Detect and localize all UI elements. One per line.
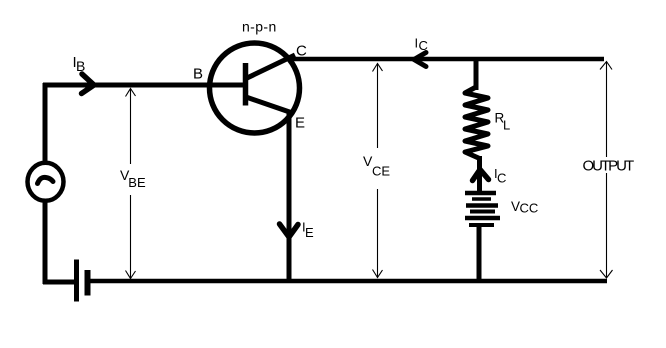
svg-text:C: C — [497, 171, 506, 186]
svg-text:n-p-n: n-p-n — [242, 19, 277, 35]
wire: drop from top rail to resistor — [474, 57, 479, 90]
wire: bottom-left horizontal to battery — [43, 280, 75, 285]
svg-text:E: E — [295, 115, 305, 132]
svg-text:E: E — [305, 225, 314, 240]
wire: emitter vertical — [287, 110, 292, 283]
svg-text:L: L — [503, 118, 510, 133]
transistor Q1 (n-p-n) — [210, 43, 300, 133]
current arrow IC (leftward on top rail) — [414, 53, 426, 67]
svg-text:C: C — [419, 38, 428, 53]
wire: collector top rail — [288, 57, 604, 62]
wire: resistor to battery VCC — [477, 156, 482, 192]
svg-text:B: B — [76, 58, 85, 74]
wire: left vertical upper segment — [43, 83, 48, 164]
measurement arrow VCE (thin double arrow) — [373, 64, 383, 278]
current arrow IB (rightward on base wire) — [82, 74, 95, 94]
current arrow IE (downward on emitter wire) — [280, 224, 299, 237]
wire: left vertical lower segment — [43, 200, 48, 284]
svg-text:BE: BE — [128, 175, 146, 190]
measurement arrow OUTPUT (thin double arrow) — [600, 62, 613, 279]
svg-text:OUTPUT: OUTPUT — [583, 158, 635, 175]
svg-text:CC: CC — [520, 201, 539, 216]
wire: bottom rail — [88, 279, 607, 284]
svg-text:CE: CE — [372, 163, 390, 178]
resistor RL — [465, 87, 488, 158]
wire: base wire from source corner to transistor base — [43, 83, 243, 88]
AC source V1 — [28, 163, 64, 201]
measurement arrow VBE (thin double arrow) — [126, 89, 136, 279]
battery VCC — [465, 193, 500, 225]
battery B1 (input bias battery) — [77, 260, 88, 302]
svg-text:B: B — [193, 66, 203, 83]
current arrow IC (upward, above VCC) — [473, 170, 489, 181]
wire: battery VCC to bottom rail — [477, 226, 482, 283]
